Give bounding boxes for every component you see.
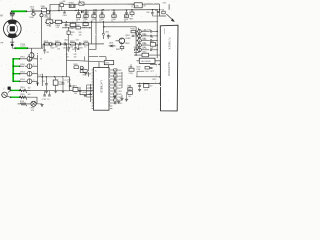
black junction block xyxy=(8,87,11,90)
diode D806 xyxy=(111,45,113,48)
connector P901 circle xyxy=(2,92,7,97)
svg-text:C476: C476 xyxy=(144,90,148,92)
svg-text:R841: R841 xyxy=(73,64,77,66)
svg-text:R824: R824 xyxy=(70,41,75,43)
small circle in cluster xyxy=(80,66,83,69)
stub above cluster x84.4 xyxy=(83,56,85,61)
svg-text:11: 11 xyxy=(92,98,94,100)
cap C830 below left bus xyxy=(31,48,33,52)
motor terminal tick xyxy=(10,15,14,17)
box C512 1000u xyxy=(53,80,58,85)
svg-text:250: 250 xyxy=(66,49,69,51)
cap C834 xyxy=(107,34,109,40)
line below bus3 right xyxy=(62,27,90,29)
box on bus2 x58 xyxy=(60,4,64,7)
wire FBT pin y64.3 xyxy=(150,63,161,65)
svg-text:F801: F801 xyxy=(41,6,45,8)
comp on bus2 x64 xyxy=(63,11,65,13)
box R824 on center bus xyxy=(70,43,75,45)
svg-text:C857: C857 xyxy=(118,91,122,93)
box R805 xyxy=(55,20,61,23)
diode D951 in sensor ladder xyxy=(20,58,27,60)
wire IC left rail xyxy=(90,84,92,102)
svg-text:L802: L802 xyxy=(64,40,68,42)
svg-text:52: 52 xyxy=(109,74,111,76)
svg-text:T402 DRIVE: T402 DRIVE xyxy=(141,61,152,63)
svg-text:C853: C853 xyxy=(113,76,117,78)
relay RY801 xyxy=(69,4,75,7)
wire bottom-left line1 xyxy=(11,89,70,91)
svg-text:R821: R821 xyxy=(44,41,49,43)
motor top lead xyxy=(11,11,13,20)
extra dots IC area xyxy=(90,87,91,88)
svg-text:RY801: RY801 xyxy=(69,2,74,4)
Q801 emitter resistor xyxy=(120,46,124,48)
green wire top (motor feed) xyxy=(12,10,27,12)
green stub 3 xyxy=(13,73,20,75)
svg-text:C80: C80 xyxy=(67,25,70,27)
junction dots bus2 xyxy=(49,10,50,11)
fuse F801 box xyxy=(42,8,47,12)
svg-text:10: 10 xyxy=(83,21,85,23)
svg-text:R868: R868 xyxy=(127,89,131,91)
svg-text:C58: C58 xyxy=(113,16,116,18)
capacitor C841 w ground xyxy=(45,77,47,84)
caps bottom right area xyxy=(138,85,141,87)
box SW802 on top bus xyxy=(79,2,84,5)
caps under crystal xyxy=(43,94,46,96)
svg-text:R82: R82 xyxy=(79,32,82,34)
wire ladder rail x42.3 xyxy=(41,74,43,86)
diode D408 in drive ladder xyxy=(136,44,138,46)
green stub 4 xyxy=(13,80,20,82)
svg-text:1N41: 1N41 xyxy=(142,33,146,35)
svg-text:C824: C824 xyxy=(63,47,68,49)
extra box cluster right-mid xyxy=(83,70,87,73)
capacitor C824 on center bus xyxy=(63,42,65,45)
center bus tick dots xyxy=(44,43,45,44)
svg-text:R822: R822 xyxy=(55,41,60,43)
junction dots center bus xyxy=(49,43,50,44)
svg-text:47: 47 xyxy=(109,89,111,91)
svg-text:C82: C82 xyxy=(74,54,77,56)
svg-text:46: 46 xyxy=(109,92,111,94)
svg-text:104: 104 xyxy=(101,16,104,18)
svg-text:C807: C807 xyxy=(70,28,75,30)
svg-text:48: 48 xyxy=(109,86,111,88)
IC right pin components xyxy=(112,69,113,71)
wire bus1 corner down at right xyxy=(160,4,167,16)
scan noise dots xyxy=(0,0,1,1)
box R835 xyxy=(134,49,139,52)
svg-text:10: 10 xyxy=(111,21,113,23)
svg-text:54: 54 xyxy=(109,68,111,70)
resistor R951 xyxy=(20,89,27,93)
wire FBT pin y76.8 xyxy=(136,76,161,78)
wire horiz y56.7 xyxy=(89,57,106,63)
capacitor C821 pair xyxy=(32,9,34,12)
svg-text:50: 50 xyxy=(109,80,111,82)
wire top supply bus xyxy=(50,3,160,5)
diode D404 in drive ladder xyxy=(136,35,138,37)
wire vertical x88.6 to bottom bus xyxy=(88,44,90,77)
wire stub x59 xyxy=(58,4,60,10)
svg-text:C8: C8 xyxy=(42,81,44,83)
svg-text:C510: C510 xyxy=(67,79,71,81)
box right of IC mid xyxy=(129,68,134,71)
svg-text:R953: R953 xyxy=(20,101,24,103)
crystal X801 xyxy=(128,88,132,91)
wire vertical x41.5 xyxy=(41,11,43,48)
capacitor C808 cluster xyxy=(78,9,79,10)
ground IC right 4 xyxy=(118,100,120,101)
svg-text:504: 504 xyxy=(74,93,77,95)
svg-text:4: 4 xyxy=(156,75,157,77)
svg-text:C470: C470 xyxy=(145,71,149,73)
svg-text:13: 13 xyxy=(92,104,94,106)
resistor R822 on center bus xyxy=(55,43,60,45)
wire rail right of IC xyxy=(121,72,123,88)
diode D953 in sensor ladder xyxy=(20,73,27,75)
bottom center extra 2 xyxy=(69,85,71,87)
svg-text:D806: D806 xyxy=(109,42,113,44)
transistor Q801 xyxy=(119,38,125,44)
svg-text:C846: C846 xyxy=(87,74,91,76)
junction dot bottom bus xyxy=(46,76,47,77)
green wire bottom 1 xyxy=(11,89,20,91)
motor bottom lead xyxy=(11,38,13,49)
parts right of Q801 xyxy=(131,30,136,32)
hanging cap below R821 xyxy=(44,45,46,50)
wire vertical x96 and jog xyxy=(89,10,96,49)
cluster right of bottom bus xyxy=(74,66,78,69)
wire vertical x91.5 xyxy=(91,22,93,44)
svg-text:R859: R859 xyxy=(118,94,122,96)
svg-text:47: 47 xyxy=(109,36,111,38)
green stub 1 xyxy=(13,58,20,60)
diode D410 in drive ladder xyxy=(136,49,138,51)
wire horiz y62 to IC top xyxy=(66,60,113,62)
vertical comp x132 xyxy=(131,10,133,12)
thermistor TH801 xyxy=(32,12,36,16)
wire vertical x138.4 xyxy=(137,28,139,49)
svg-text:1N41: 1N41 xyxy=(142,38,146,40)
svg-text:2W: 2W xyxy=(55,46,58,48)
capacitor C832 vertical xyxy=(102,22,104,33)
svg-text:R845: R845 xyxy=(83,74,87,76)
svg-text:49: 49 xyxy=(109,83,111,85)
svg-text:X801: X801 xyxy=(127,86,131,88)
ground IC right 3 xyxy=(114,95,116,103)
resistor R821 on center bus xyxy=(44,43,49,45)
svg-text:53: 53 xyxy=(109,71,111,73)
svg-text:C806: C806 xyxy=(63,15,67,17)
diode D952 in sensor ladder xyxy=(20,65,27,67)
svg-text:C82: C82 xyxy=(76,39,79,41)
box on third bus S801 xyxy=(46,20,53,24)
IC left extra stubs xyxy=(87,84,92,86)
svg-text:R831: R831 xyxy=(125,43,129,45)
center bus extra cap xyxy=(51,43,53,46)
box T402 driver transformer xyxy=(139,58,155,63)
green wire mid (motor return) xyxy=(15,47,28,49)
svg-text:12: 12 xyxy=(92,101,94,103)
green stub 2 xyxy=(13,65,20,67)
svg-text:FLYBACK: FLYBACK xyxy=(167,38,170,50)
svg-text:104: 104 xyxy=(31,8,34,10)
ground IC right 1 xyxy=(121,95,123,98)
svg-text:R851: R851 xyxy=(118,70,122,72)
lamp LP901 xyxy=(31,101,36,106)
capacitor C826 xyxy=(79,42,81,45)
box D481 top right xyxy=(134,3,142,8)
top right small parts xyxy=(151,12,154,14)
svg-text:Q801: Q801 xyxy=(125,35,130,37)
svg-text:C42: C42 xyxy=(150,37,153,39)
svg-text:44: 44 xyxy=(109,98,111,100)
svg-text:M: M xyxy=(0,13,2,17)
wire bottom stub y104 xyxy=(26,103,37,105)
motor M901 body xyxy=(4,20,22,38)
green wire bottom 2 xyxy=(11,96,20,98)
diode D802 cluster xyxy=(81,11,83,14)
wire IC top pin stub B xyxy=(108,62,110,67)
junction dots bus3 xyxy=(49,22,50,23)
svg-text:J: J xyxy=(3,88,4,90)
svg-text:C855: C855 xyxy=(118,85,122,87)
capacitor C818 cluster xyxy=(126,9,127,10)
svg-text:1/2W: 1/2W xyxy=(136,69,140,71)
wire second bus (B+ line) xyxy=(27,10,159,12)
diode D406 in drive ladder xyxy=(136,39,138,41)
svg-text:R440: R440 xyxy=(142,51,146,53)
capacitor C812 cluster xyxy=(93,9,94,10)
svg-text:43: 43 xyxy=(109,101,111,103)
wire right ladder left rail xyxy=(135,27,137,55)
svg-text:B: B xyxy=(33,64,34,66)
posistor circle xyxy=(46,11,49,14)
svg-text:R857: R857 xyxy=(118,88,122,90)
svg-text:10: 10 xyxy=(76,21,78,23)
deflection arrow diagonal xyxy=(166,14,173,21)
motor commutator block xyxy=(10,26,15,31)
svg-text:2.2: 2.2 xyxy=(84,47,86,49)
svg-text:R512: R512 xyxy=(83,92,87,94)
resistor R952 xyxy=(20,96,27,100)
svg-text:R442: R442 xyxy=(150,41,154,43)
svg-text:R823: R823 xyxy=(71,32,75,34)
svg-text:0.1: 0.1 xyxy=(66,54,68,56)
wire vertical x66.4 xyxy=(65,44,67,77)
svg-text:R819: R819 xyxy=(129,19,133,21)
resistor R953 xyxy=(21,103,27,106)
svg-text:R952: R952 xyxy=(20,94,24,96)
svg-text:C2482: C2482 xyxy=(125,38,130,40)
svg-text:C853: C853 xyxy=(118,79,122,81)
svg-text:1K2: 1K2 xyxy=(28,87,31,89)
wire vertical x50 xyxy=(49,4,51,27)
hanging pair A below center bus xyxy=(68,44,70,48)
svg-text:45: 45 xyxy=(109,95,111,97)
diode D402 in drive ladder xyxy=(136,30,138,32)
ground near lamp xyxy=(40,104,43,106)
svg-text:R470: R470 xyxy=(136,67,140,69)
hanging pair B below center bus xyxy=(75,44,77,48)
motor bottom tick xyxy=(10,41,14,43)
svg-text:L51: L51 xyxy=(86,88,89,90)
ground arrow ladder rail xyxy=(36,83,39,86)
svg-text:R472: R472 xyxy=(152,79,156,81)
box below crystal right xyxy=(128,91,133,94)
small box near FBT top xyxy=(162,11,165,14)
svg-text:10: 10 xyxy=(99,21,101,23)
green bracket vertical xyxy=(12,59,14,82)
ladder bottom line xyxy=(134,54,160,56)
svg-text:R851: R851 xyxy=(113,73,117,75)
junction dot motor return xyxy=(11,44,14,47)
wire right vertical rail x157.5 xyxy=(156,10,158,59)
IC801 LA76810 body xyxy=(94,68,110,111)
svg-text:C51: C51 xyxy=(71,86,74,88)
motor brush cap top xyxy=(8,19,17,23)
wire IC top pin stub A xyxy=(98,62,100,67)
box mid ladder right xyxy=(150,43,155,47)
svg-text:C851: C851 xyxy=(118,73,122,75)
svg-text:104: 104 xyxy=(70,47,73,49)
wire bottom bus y76.8 xyxy=(38,76,70,78)
flyback transformer T471 body xyxy=(160,25,178,111)
center bus box x84 xyxy=(84,43,89,45)
vertical chain x68.5 bus3 to center bus xyxy=(68,28,70,44)
svg-text:10: 10 xyxy=(124,21,126,23)
wire corner x69.5 down xyxy=(70,77,95,91)
capacitor C843 w ground xyxy=(62,77,64,83)
motor terminal blocks xyxy=(10,12,12,14)
svg-text:D481: D481 xyxy=(135,6,139,8)
svg-text:10: 10 xyxy=(92,95,94,97)
flyback internal line xyxy=(164,28,166,34)
ladder extra parts left xyxy=(135,32,137,34)
svg-text:VA1: VA1 xyxy=(46,24,49,27)
circle on center bus xyxy=(49,43,52,46)
capacitor C851 on IC top xyxy=(104,61,113,65)
svg-text:C44: C44 xyxy=(150,48,153,50)
svg-text:R478: R478 xyxy=(129,66,133,68)
wire FBT pin y83.4 xyxy=(137,82,161,84)
svg-text:R826: R826 xyxy=(84,41,88,43)
svg-text:10: 10 xyxy=(47,99,49,101)
svg-text:42: 42 xyxy=(109,104,111,106)
svg-text:C82: C82 xyxy=(46,52,49,54)
svg-text:L801: L801 xyxy=(60,2,64,4)
capacitor C814 cluster xyxy=(101,9,102,10)
svg-text:R4: R4 xyxy=(155,10,157,12)
svg-text:3K3: 3K3 xyxy=(28,94,31,96)
wire bottom-left line2 xyxy=(11,97,38,104)
svg-text:DL81: DL81 xyxy=(105,63,109,65)
motor brush cap bottom xyxy=(8,34,17,38)
svg-text:1N41: 1N41 xyxy=(142,42,146,44)
junction dots right rail xyxy=(157,31,158,32)
wire left bus to motor return xyxy=(12,44,104,48)
svg-text:R807: R807 xyxy=(76,25,80,27)
crystal network xyxy=(80,87,92,95)
svg-text:R853: R853 xyxy=(118,76,122,78)
svg-text:R855: R855 xyxy=(118,82,122,84)
cluster below bus3 C807 xyxy=(70,23,76,26)
wire third bus xyxy=(45,21,158,24)
wire left vertical ladder rail x37.5 xyxy=(37,53,39,86)
capacitor C810 cluster xyxy=(85,9,86,10)
capacitor C816 cluster xyxy=(113,9,114,10)
svg-text:C48: C48 xyxy=(146,12,149,14)
cluster D801 xyxy=(83,23,88,26)
diode D954 in sensor ladder xyxy=(20,80,27,82)
svg-text:R951: R951 xyxy=(20,87,24,89)
svg-text:C478: C478 xyxy=(129,73,133,75)
svg-text:TH80: TH80 xyxy=(29,17,33,19)
svg-text:R48: R48 xyxy=(161,9,164,11)
svg-text:R832: R832 xyxy=(116,49,120,51)
svg-text:B+ 115V: B+ 115V xyxy=(145,29,152,31)
svg-text:C830: C830 xyxy=(27,59,32,61)
ground IC right 2 xyxy=(126,92,128,99)
